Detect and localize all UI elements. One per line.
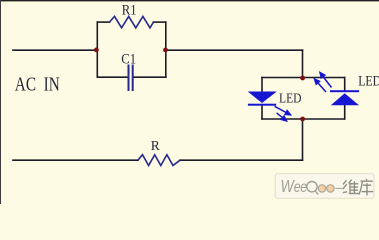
svg-text:LED: LED — [279, 91, 302, 106]
svg-text:AC IN: AC IN — [15, 74, 60, 96]
svg-text:R: R — [151, 138, 160, 153]
svg-text:R1: R1 — [122, 2, 137, 18]
svg-text:ee: ee — [294, 178, 307, 196]
svg-text:LED: LED — [358, 73, 379, 89]
svg-text:C1: C1 — [121, 51, 136, 67]
